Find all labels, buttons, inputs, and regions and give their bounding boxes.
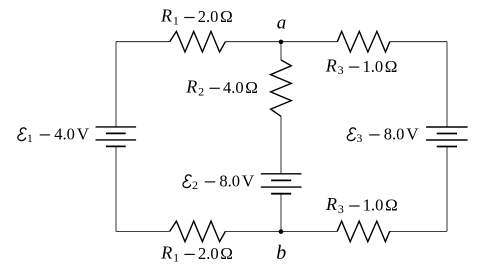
wire bottom-right segment bbox=[390, 230, 448, 232]
svg-text:1: 1 bbox=[173, 251, 179, 265]
svg-text:2.0: 2.0 bbox=[198, 244, 219, 263]
resistor R3 (top) bbox=[337, 31, 390, 52]
resistor R2 (vertical) bbox=[271, 60, 292, 116]
label R1 top bbox=[160, 6, 233, 28]
node a bbox=[279, 40, 284, 45]
wire bottom-left segment bbox=[116, 230, 170, 232]
node b bbox=[279, 229, 284, 234]
svg-text:8.0: 8.0 bbox=[384, 125, 405, 144]
svg-text:Ω: Ω bbox=[245, 78, 258, 97]
svg-text:Ω: Ω bbox=[220, 244, 233, 263]
svg-text:R: R bbox=[160, 6, 172, 26]
wire left vertical upper bbox=[115, 42, 117, 127]
label R3 bottom bbox=[325, 194, 398, 216]
label R1 bottom bbox=[160, 243, 233, 265]
wire top-right segment bbox=[390, 41, 447, 43]
svg-text:V: V bbox=[77, 125, 90, 144]
wire left vertical lower bbox=[115, 146, 117, 231]
resistor R1 (bottom) bbox=[170, 221, 226, 242]
label E1 bbox=[18, 125, 90, 145]
svg-text:2: 2 bbox=[198, 84, 204, 98]
svg-text:4.0: 4.0 bbox=[54, 125, 75, 144]
svg-text:Ω: Ω bbox=[385, 196, 398, 215]
wire bottom-middle segment bbox=[225, 230, 337, 232]
svg-text:4.0: 4.0 bbox=[223, 78, 244, 97]
battery E2 bbox=[261, 174, 302, 194]
svg-text:1.0: 1.0 bbox=[363, 57, 384, 76]
resistor R1 (top) bbox=[170, 31, 226, 52]
svg-text:V: V bbox=[406, 125, 419, 144]
svg-text:2.0: 2.0 bbox=[198, 7, 219, 26]
resistor R3 (bottom) bbox=[337, 221, 390, 242]
svg-text:V: V bbox=[242, 172, 255, 191]
svg-text:1: 1 bbox=[173, 14, 179, 28]
svg-text:Ω: Ω bbox=[220, 7, 233, 26]
label R3 top bbox=[325, 55, 398, 77]
label E2 bbox=[183, 172, 255, 192]
svg-text:8.0: 8.0 bbox=[219, 172, 240, 191]
svg-text:R: R bbox=[160, 243, 172, 263]
wire top-middle segment bbox=[225, 41, 337, 43]
wire middle vertical: R2 to E2 bbox=[280, 116, 282, 174]
svg-text:2: 2 bbox=[192, 178, 198, 192]
svg-text:R: R bbox=[185, 77, 197, 97]
svg-text:Ω: Ω bbox=[385, 57, 398, 76]
wire right vertical upper bbox=[446, 42, 448, 127]
wire right vertical lower bbox=[446, 147, 448, 232]
battery E3 bbox=[426, 127, 468, 147]
label E3 bbox=[347, 125, 419, 145]
svg-text:R: R bbox=[325, 55, 337, 75]
svg-text:R: R bbox=[325, 194, 337, 214]
svg-text:3: 3 bbox=[338, 63, 344, 77]
svg-text:1.0: 1.0 bbox=[363, 196, 384, 215]
svg-text:a: a bbox=[277, 13, 287, 34]
svg-text:3: 3 bbox=[356, 131, 362, 145]
svg-text:3: 3 bbox=[338, 202, 344, 216]
wire top-left segment bbox=[116, 41, 170, 43]
svg-text:1: 1 bbox=[27, 131, 33, 145]
label R2 bbox=[185, 77, 258, 99]
wire middle vertical: node a to R2 bbox=[280, 42, 282, 61]
svg-text:b: b bbox=[276, 242, 286, 264]
battery E1 bbox=[96, 127, 137, 146]
wire middle vertical: E2 to node b bbox=[280, 194, 282, 232]
